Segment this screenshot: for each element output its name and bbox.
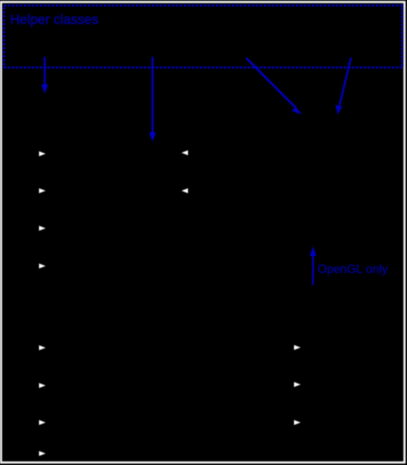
arrow A1 [41, 57, 48, 94]
white triangle L6 [39, 383, 46, 388]
svg-text:OpenGL only: OpenGL only [318, 262, 388, 276]
white triangle R3 [294, 420, 301, 425]
white triangle L4 [39, 264, 46, 269]
white triangle M2 left-pointing [182, 188, 189, 193]
dashed helper-classes box [4, 6, 402, 68]
white triangle L7 [39, 420, 46, 425]
arrow A4 diagonal [336, 58, 352, 115]
white triangle L1 [39, 151, 46, 156]
white triangle L3 [39, 226, 46, 231]
arrow A2 [149, 57, 156, 142]
white triangle R1 [294, 345, 301, 350]
white triangle L8 [39, 451, 46, 456]
arrow A3 diagonal [246, 58, 302, 115]
white triangle M1 left-pointing [182, 150, 189, 155]
arrow A5 up OpenGL only [310, 247, 317, 286]
white triangle R2 [294, 382, 301, 387]
svg-text:Helper classes: Helper classes [10, 12, 99, 27]
white triangle L5 [39, 345, 46, 350]
white triangle L2 [39, 188, 46, 193]
